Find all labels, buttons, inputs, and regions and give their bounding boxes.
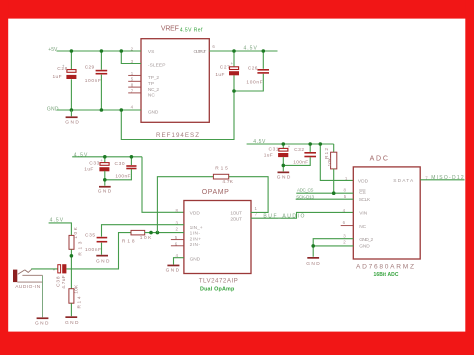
- capacitor C28 1uF polarized: [53, 64, 77, 80]
- svg-text:GND_2: GND_2: [359, 237, 373, 243]
- svg-text:NC: NC: [359, 224, 366, 230]
- svg-text:100nF: 100nF: [85, 247, 101, 253]
- svg-text:C31: C31: [269, 146, 279, 152]
- connector X1 AUDIO-IN jack: [13, 269, 43, 290]
- wire net opamp gnd pin4: [174, 258, 184, 265]
- label Dual OpAmp: [200, 286, 235, 292]
- svg-text:4.7K: 4.7K: [222, 179, 233, 185]
- svg-text:10K: 10K: [327, 157, 333, 167]
- svg-text:+5V: +5V: [48, 47, 58, 53]
- wire net GND left rail: [57, 74, 264, 140]
- svg-text:GND: GND: [35, 321, 49, 327]
- wire net gnd C33 C30: [105, 169, 132, 186]
- net label SCK-D13: [296, 195, 314, 200]
- svg-text:R12: R12: [324, 148, 330, 159]
- svg-text:100nF: 100nF: [85, 78, 101, 84]
- svg-text:4.5V Ref: 4.5V Ref: [180, 27, 203, 33]
- capacitor C33 1uF polarized: [84, 158, 109, 173]
- wire net 4.5V adc rail: [247, 144, 354, 180]
- svg-text:C28: C28: [57, 66, 67, 72]
- wire net 4.5V to R13: [49, 223, 72, 235]
- svg-text:4.5V: 4.5V: [244, 46, 258, 52]
- capacitor C26 100nF: [246, 66, 269, 86]
- svg-text:GND: GND: [190, 257, 201, 263]
- IC U3 AD7680ARMZ box: [353, 167, 420, 259]
- svg-text:2OUT: 2OUT: [230, 216, 242, 222]
- wire net MISO-D12: [420, 179, 464, 181]
- svg-text:1uF: 1uF: [264, 153, 273, 159]
- svg-text:C32: C32: [294, 147, 304, 153]
- resistor R13 10K: [69, 226, 83, 255]
- overbar CS pin: [359, 189, 365, 191]
- svg-text:GND: GND: [277, 175, 291, 181]
- svg-text:NC: NC: [148, 93, 155, 99]
- junction dots adc rail: [282, 142, 323, 146]
- pin numbers AD7680: [343, 175, 429, 244]
- svg-text:C33: C33: [89, 160, 99, 166]
- ground symbol under C28: [65, 110, 79, 126]
- net label 4.5V R13 bias: [50, 218, 64, 224]
- border frame right: [465, 0, 474, 355]
- svg-text:10K: 10K: [73, 284, 79, 294]
- junction dots GND rail: [70, 89, 236, 112]
- svg-text:CS: CS: [359, 190, 366, 196]
- svg-text:VS: VS: [148, 49, 154, 55]
- svg-text:GND: GND: [166, 268, 180, 274]
- ground symbol C31 C32: [277, 172, 291, 181]
- svg-text:100nF: 100nF: [115, 173, 130, 179]
- svg-text:1OUT: 1OUT: [230, 211, 242, 217]
- svg-text:GND: GND: [98, 189, 112, 195]
- ground symbol opamp pin4: [166, 265, 180, 274]
- svg-text:R13: R13: [77, 241, 83, 255]
- junction dots 4.5V out: [232, 49, 265, 53]
- border frame top: [0, 0, 474, 19]
- capacitor C29 100nF: [85, 65, 108, 85]
- svg-text:NC_2: NC_2: [148, 87, 160, 93]
- svg-text:ADC: ADC: [370, 155, 388, 162]
- svg-text:SCK-D13: SCK-D13: [296, 195, 314, 200]
- svg-text:BUF_AUDIO: BUF_AUDIO: [263, 214, 304, 220]
- svg-text:SCLK: SCLK: [359, 197, 371, 203]
- junction dot C33 gnd: [103, 178, 107, 182]
- resistor R14 10K: [69, 284, 83, 308]
- svg-text:R14: R14: [76, 296, 82, 308]
- svg-text:GND: GND: [65, 120, 79, 126]
- svg-text:4.5V: 4.5V: [74, 153, 88, 159]
- net label 4.5V adc rail: [253, 139, 266, 145]
- label VREF title: [161, 26, 179, 33]
- svg-text:C38: C38: [56, 276, 62, 287]
- label TLV2472AIP: [199, 277, 238, 284]
- svg-text:16Bit ADC: 16Bit ADC: [374, 272, 399, 278]
- capacitor C30 100nF: [115, 161, 137, 180]
- svg-text:10K: 10K: [140, 235, 152, 241]
- svg-text:10K: 10K: [73, 226, 79, 238]
- net label +5V: [48, 47, 58, 53]
- svg-text:100nF: 100nF: [293, 160, 308, 166]
- wire R12 to CS: [333, 169, 335, 193]
- IC U1 REF194ESZ box: [141, 39, 209, 123]
- svg-text:TP_2: TP_2: [148, 75, 160, 81]
- svg-text:GND: GND: [359, 244, 370, 250]
- pin stub ADC NC: [341, 225, 354, 227]
- wire feedback loop R15: [157, 177, 268, 233]
- wire R18 to inverting input: [145, 232, 184, 234]
- ground symbol jack: [35, 317, 49, 326]
- svg-text:TP: TP: [148, 81, 154, 87]
- svg-text:VREF: VREF: [161, 26, 179, 33]
- wire audio node to R18: [67, 233, 132, 269]
- border frame left: [0, 0, 8, 355]
- svg-text:C27: C27: [220, 64, 230, 70]
- svg-text:C26: C26: [248, 66, 258, 72]
- svg-text:2IN+: 2IN+: [190, 237, 202, 243]
- svg-text:AUDIO-IN: AUDIO-IN: [15, 284, 41, 290]
- wire net bias node R13-R14: [70, 249, 72, 288]
- svg-text:TLV2472AIP: TLV2472AIP: [199, 277, 238, 284]
- junction dots +5V rail: [70, 49, 124, 53]
- pin stubs REF194 pins 1,5,8,7: [128, 75, 141, 93]
- net label BUF_AUDIO: [263, 214, 304, 220]
- ground symbol R14: [65, 316, 79, 326]
- svg-text:VDD: VDD: [190, 211, 201, 217]
- svg-text:1IN_+: 1IN_+: [190, 225, 203, 231]
- label 16Bit ADC: [374, 272, 399, 278]
- svg-text:Dual OpAmp: Dual OpAmp: [200, 286, 235, 292]
- svg-text:GND: GND: [96, 259, 110, 265]
- svg-text:R15: R15: [215, 165, 228, 171]
- label AD7680ARMZ: [356, 263, 414, 270]
- capacitor C32 100nF: [293, 147, 316, 166]
- svg-text:2IN-: 2IN-: [190, 242, 201, 248]
- wire net BUF_AUDIO: [251, 212, 354, 218]
- label ADC title: [370, 155, 388, 162]
- capacitor C27 1uF polarized: [215, 61, 239, 78]
- svg-text:OUTPUT: OUTPUT: [194, 49, 207, 55]
- junction dot R12 CS: [332, 191, 336, 195]
- capacitor C31 1uF polarized: [264, 144, 291, 159]
- svg-text:AD7680ARMZ: AD7680ARMZ: [356, 263, 414, 270]
- wire jack ground: [42, 276, 44, 318]
- wire C35 to opamp noninverting input: [102, 225, 184, 237]
- svg-text:1uF: 1uF: [84, 167, 93, 173]
- net label 4.5V at REF output: [244, 46, 258, 52]
- svg-text:GND: GND: [148, 109, 159, 115]
- svg-text:-SLEEP: -SLEEP: [148, 63, 166, 69]
- svg-text:GND: GND: [65, 320, 79, 326]
- pin numbers TLV2472: [175, 206, 258, 258]
- ground symbol C35: [96, 255, 110, 265]
- wire net 4.5V from OUTPUT: [209, 51, 277, 69]
- wire net +5V rail: [57, 51, 142, 70]
- svg-text:GND: GND: [306, 261, 320, 267]
- wire net ADC gnd: [313, 239, 353, 257]
- junction dot ADC gnd: [311, 244, 315, 248]
- pin names REF194: [148, 49, 206, 115]
- wire net 4.5V opamp rail: [72, 157, 184, 213]
- svg-text:4.7uF: 4.7uF: [61, 275, 67, 289]
- svg-text:REF194ESZ: REF194ESZ: [156, 132, 199, 139]
- svg-text:ADC_CS: ADC_CS: [297, 188, 313, 193]
- wire net SCK-D13: [296, 198, 354, 200]
- label 4.5V Ref subtitle: [180, 27, 203, 33]
- pin names TLV2472: [190, 211, 242, 263]
- svg-text:R18: R18: [122, 239, 135, 245]
- junction dots opamp rail: [103, 155, 133, 159]
- capacitor C35 100nF: [85, 233, 107, 254]
- wire audio in to C38: [31, 268, 57, 270]
- wire R14 to gnd: [70, 303, 72, 316]
- label REF194ESZ: [156, 132, 199, 139]
- capacitor C38 4.7uF polarized: [53, 264, 67, 289]
- svg-text:C30: C30: [115, 161, 125, 167]
- junction dot C31 gnd: [282, 164, 286, 168]
- svg-text:MISO-D12: MISO-D12: [431, 175, 464, 181]
- ground symbol C33 C30: [98, 186, 112, 195]
- svg-text:SDATA: SDATA: [393, 178, 414, 184]
- wire net ADC_CS: [296, 192, 353, 194]
- junction dots inverting input: [149, 231, 159, 235]
- wire C35 to gnd: [101, 243, 103, 255]
- svg-text:VIN: VIN: [359, 211, 368, 217]
- resistor R15 4.7K: [213, 165, 233, 185]
- svg-text:1IN-: 1IN-: [190, 230, 201, 236]
- IC U2 TLV2472AIP box: [184, 201, 251, 274]
- net label GND left rail: [47, 107, 59, 113]
- net label MISO-D12: [431, 175, 464, 181]
- wire net gnd C31 C32: [283, 157, 310, 171]
- border frame bottom: [0, 332, 474, 355]
- pin numbers REF194 left: [131, 44, 216, 109]
- svg-text:100nF: 100nF: [246, 80, 262, 86]
- svg-text:1uF: 1uF: [215, 72, 224, 78]
- ground symbol ADC: [306, 257, 320, 267]
- resistor R18 10K: [122, 230, 152, 244]
- pin stubs TLV2472 pins 5,6: [171, 240, 184, 246]
- svg-text:VDD: VDD: [358, 178, 369, 184]
- svg-text:OPAMP: OPAMP: [202, 189, 229, 196]
- svg-text:C35: C35: [85, 233, 95, 239]
- label OPAMP title: [202, 189, 229, 196]
- svg-text:1uF: 1uF: [53, 74, 62, 80]
- resistor R12 10K pullup: [324, 148, 337, 169]
- net label ADC_CS: [297, 188, 313, 193]
- pin names AD7680: [358, 178, 414, 250]
- junction dot bias node: [70, 254, 74, 258]
- net label 4.5V opamp rail: [74, 153, 88, 159]
- svg-text:C29: C29: [85, 65, 95, 71]
